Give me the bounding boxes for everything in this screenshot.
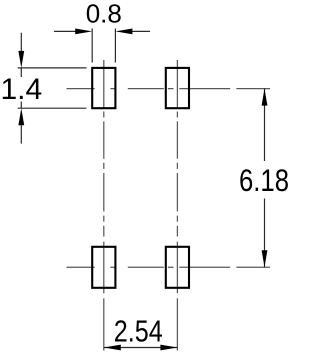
svg-text:0.8: 0.8 bbox=[86, 0, 122, 29]
svg-text:1.4: 1.4 bbox=[0, 73, 42, 106]
svg-text:6.18: 6.18 bbox=[239, 162, 289, 198]
svg-text:2.54: 2.54 bbox=[114, 315, 163, 349]
